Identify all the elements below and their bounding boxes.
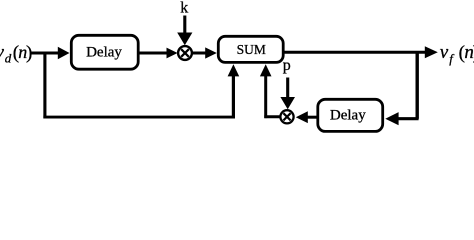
wire Delay1 to multiplier M1 with arrowhead [138,48,178,59]
wire p to M2 with arrowhead [280,78,295,110]
delay block Delay1 [71,35,138,69]
svg-text:d: d [5,51,12,66]
wire M1 to SUM with arrowhead [192,47,217,58]
svg-text:Delay: Delay [86,45,122,61]
wire feedback from output junction down and left into Delay2 with arrowhead [385,52,418,125]
delay block Delay2 [318,99,383,131]
summer block SUM [218,36,283,62]
input label v_d(n) [0,42,32,66]
svg-text:Delay: Delay [330,107,366,123]
multiplier M2 (circle with X, gain p) [280,110,293,123]
multiplier M1 (circle with X, gain k) [178,46,192,60]
wire k to M1 with arrowhead [177,16,192,46]
wire input line with arrowhead into Delay1 [31,47,70,60]
svg-text:f: f [449,51,455,66]
wire SUM output line with arrowhead [284,46,438,58]
svg-text:SUM: SUM [237,42,266,57]
wire input bypass from input junction along bottom rail up into SUM with arrowhead [43,52,239,119]
svg-text:k: k [180,0,188,17]
output label v_f(n) [440,42,474,66]
svg-text:v: v [440,42,449,63]
wire Delay2 to multiplier M2 with arrowhead [296,111,317,123]
wire M2 to SUM (left then up) with arrowhead [260,64,281,118]
svg-text:p: p [283,57,291,74]
